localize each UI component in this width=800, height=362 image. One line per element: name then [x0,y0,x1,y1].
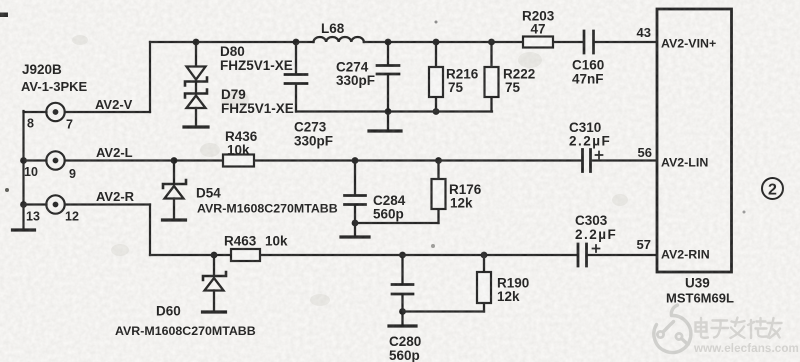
ground (C284) [341,235,369,238]
junction C280 bottom [399,308,406,315]
wire: ground bus vertical (connector shield) [22,111,24,229]
capacitor C280 [392,255,413,325]
junction C284 bottom [352,220,359,227]
RCA jack pin 12 (AV2-R) [46,195,64,213]
wire: AV2-R riser down [149,205,151,256]
capacitor C274 [377,42,399,112]
junction top rail / D80 [193,39,200,46]
ground (D54) [163,218,186,221]
wire: bottom rail of video filter [296,110,492,112]
wire: AV2-R line to C303 [150,254,577,256]
wire: jack12 to riser (AV2-R) [65,203,150,205]
junction top rail / R216 [433,39,440,46]
junction AV2-L / D54 [171,157,178,164]
diode D79 (zener, cathode up) [185,81,207,126]
junction AV2-R / R190 [481,252,488,259]
capacitor C303 (polar) [578,244,600,266]
IC U39 box [657,9,732,272]
diode D80 (zener, cathode down) [185,42,207,86]
resistor R436 [223,155,254,167]
junction AV2-L / C284 [352,157,359,164]
resistor R463 [231,249,260,261]
wire: AV2-V riser [149,42,151,112]
junction AV2-L / R176 [435,157,442,164]
wire: jack7 to riser (AV2-V) [65,111,150,113]
junction top rail / R222 [488,39,495,46]
wire: jack9 stub from bus [24,159,47,161]
resistor R216 [429,42,443,112]
junction bus/AV2-L [20,157,27,164]
stray scan mark top-left [0,13,8,18]
wire: AV2-L line to C310 [65,159,582,161]
ground (connector shield) [13,228,35,231]
junction AV2-R / C280 [399,252,406,259]
junction bus/AV2-R [20,201,27,208]
ground (bottom rail) [369,112,401,132]
inductor L68 [314,37,364,42]
capacitor C273 [285,42,307,112]
wire: C303 to pin 57 [589,254,658,256]
junction AV2-R / D60 [211,252,218,259]
RCA jack pin 9 (AV2-L) [46,151,64,169]
ground (D60) [203,310,226,313]
wire: C284 bottom to R176 bottom [355,222,439,224]
junction bottom rail / C274 [385,108,392,115]
RCA jack pin 7 (AV2-V) [46,103,64,121]
ground (C280) [389,324,416,327]
capacitor C160 [584,31,594,53]
sheet number circled 2 [762,178,783,199]
watermark logo (elecfans) [654,305,691,352]
wire: jack12 stub from bus [24,203,47,205]
watermark text dianzifashaoyou [696,318,782,339]
diode D60 (varistor) [203,255,226,311]
wire: jack7 stub from bus [24,111,47,113]
wire: C160 to pin 43 [595,41,658,43]
ground (D80/D79) [184,125,208,128]
capacitor C284 [345,161,366,237]
junction top rail / C273 [293,39,300,46]
junction top rail / C274 [385,39,392,46]
wire: C310 to pin 56 [592,159,657,161]
resistor R176 [432,161,446,224]
wire: top rail y=42 to C160 [150,41,583,43]
resistor R190 [477,255,491,312]
wire: C280 bottom to R190 bottom [403,310,485,312]
capacitor C310 (polar) [583,150,603,172]
resistor R222 [485,42,499,112]
resistor R203 [523,37,553,48]
diode D54 (varistor) [163,161,186,220]
junction bottom rail / R216 [433,108,440,115]
